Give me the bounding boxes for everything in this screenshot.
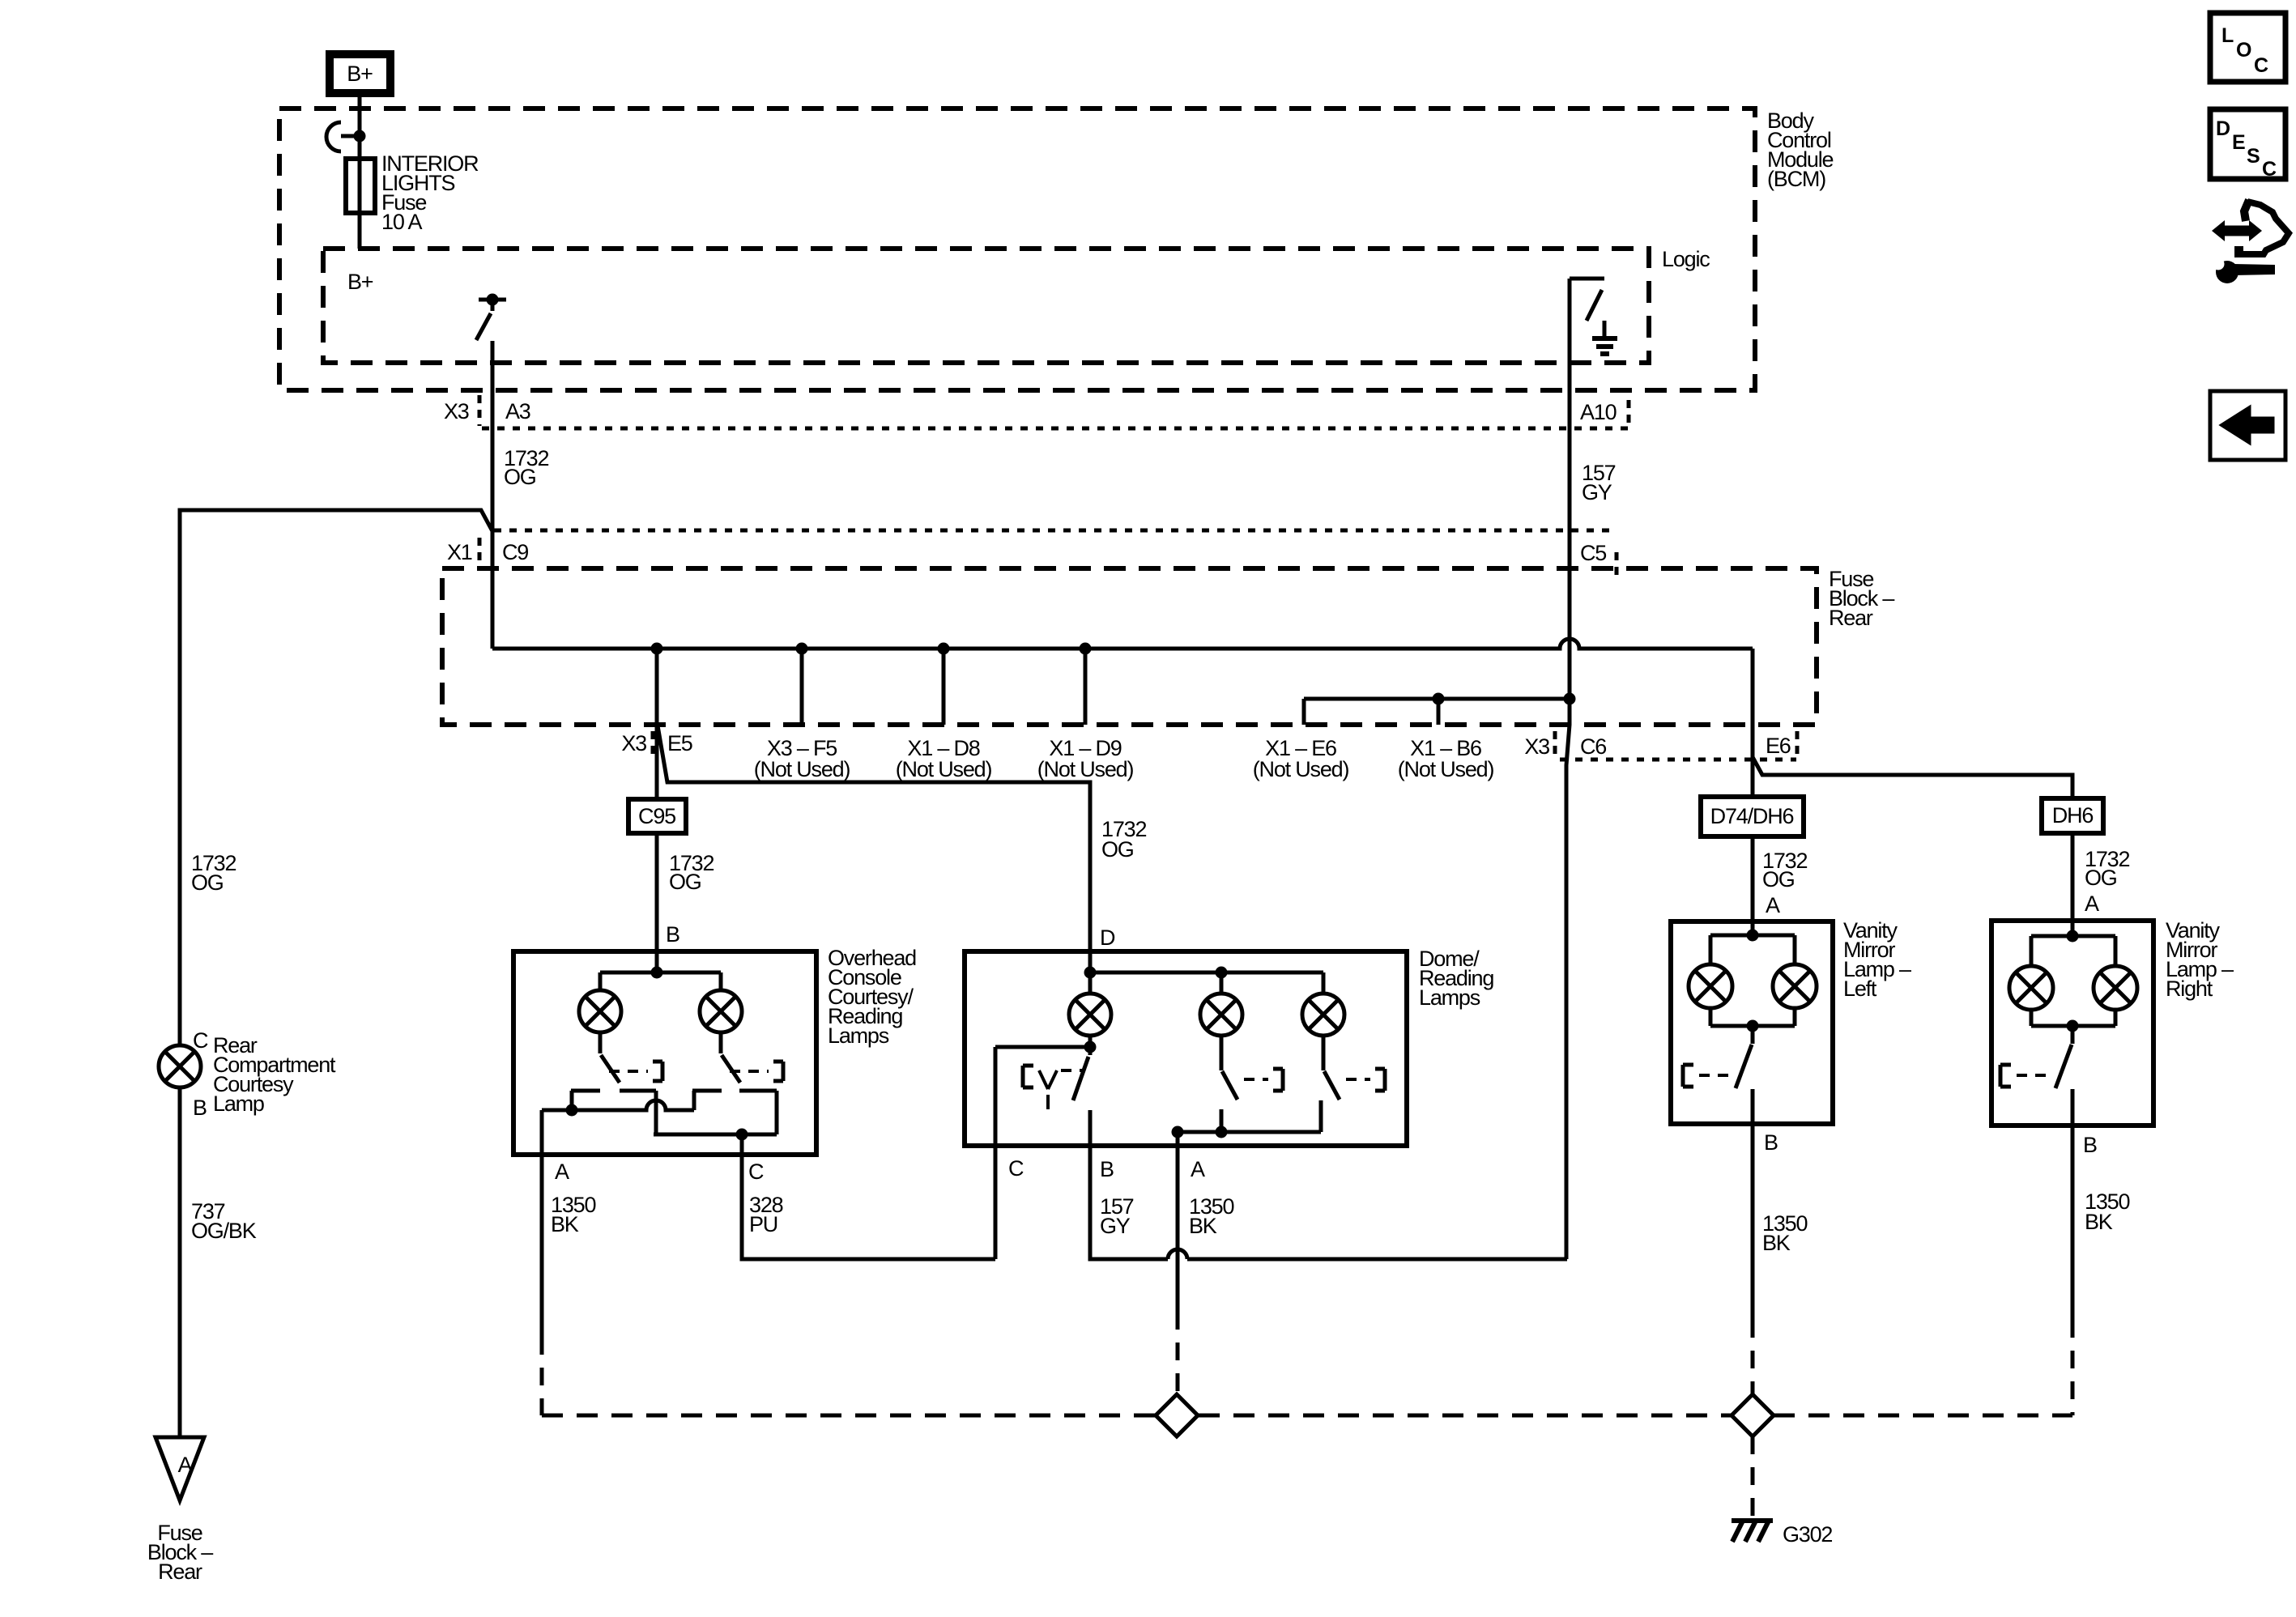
svg-text:C: C [748, 1160, 764, 1184]
rear compartment courtesy lamp label [213, 1033, 336, 1116]
drop wire F5 [800, 649, 804, 725]
drop wire E5 [655, 649, 659, 725]
connector row C6/E6 [1524, 731, 1797, 760]
svg-text:A: A [555, 1160, 569, 1184]
wire label 1350 BK (overhead A) [551, 1193, 595, 1236]
svg-text:(BCM): (BCM) [1767, 167, 1825, 191]
vanity left label [1843, 918, 1911, 1001]
connector row X1/C9/C5 dotted line [494, 529, 1617, 533]
overhead console feed rail [600, 951, 721, 990]
svg-text:BK: BK [1189, 1214, 1217, 1238]
svg-text:A: A [1191, 1157, 1205, 1181]
drop wire X1-B6 [1437, 699, 1441, 725]
label X3 - F5 (Not Used) [754, 736, 850, 781]
junction dot E5 [651, 643, 663, 655]
DESC icon box [2210, 109, 2285, 181]
svg-text:OG: OG [2085, 866, 2117, 890]
svg-text:C9: C9 [502, 540, 528, 564]
vanity left pin B wire [1751, 1089, 1755, 1320]
svg-text:C: C [1008, 1156, 1024, 1181]
splice diamond S301 [1156, 1394, 1198, 1436]
drop wire D9 [1084, 649, 1088, 725]
overhead lamp right [700, 990, 742, 1032]
svg-text:A3: A3 [505, 399, 530, 423]
drop wire X1-E6 [1302, 699, 1306, 725]
label X1 - D9 (Not Used) [1037, 736, 1134, 781]
vanity right lamp 1 [2009, 966, 2053, 1010]
junction dot D8 [938, 643, 950, 655]
wire label 1732 OG (below C95) [669, 851, 714, 894]
dome switch 3 [1321, 1036, 1385, 1132]
wire DH6 to vanity right [2071, 833, 2075, 921]
wire E5 to C95 [655, 725, 659, 799]
Fuse Block - Rear label [1829, 567, 1894, 630]
svg-text:OG: OG [1101, 837, 1134, 862]
wire E6 branch to DH6 [1753, 757, 2072, 798]
svg-text:D: D [1100, 926, 1115, 950]
dome output rail to pin A [1172, 1126, 1322, 1138]
svg-text:(Not Used): (Not Used) [754, 757, 850, 781]
vanity right label [2166, 918, 2234, 1001]
wire B+ feed to fuse [358, 93, 362, 159]
wire E6 from bus corner down to D74/DH6 [1751, 649, 1755, 797]
svg-text:B: B [666, 922, 679, 947]
wire label 1350 BK (vanity right) [2085, 1189, 2129, 1234]
junction dot F5 [796, 643, 808, 655]
wire E5 branch to dome lamps pin D [658, 726, 1090, 951]
dome lamp 3 [1302, 994, 1344, 1036]
fuse INTERIOR LIGHTS 10 A [346, 151, 479, 234]
label X1 - B6 (Not Used) [1398, 736, 1494, 781]
svg-text:OG: OG [1762, 867, 1795, 891]
svg-text:B+: B+ [347, 270, 373, 294]
vanity right pin B wire [2071, 1089, 2075, 1320]
ground splice bus dashed [542, 1414, 2072, 1418]
svg-text:E5: E5 [667, 731, 692, 755]
dome pin B wire with hop over pin A wire [1090, 1110, 1567, 1259]
connector separator right of C5 [1615, 552, 1619, 577]
svg-text:G302: G302 [1783, 1522, 1832, 1547]
vanity left switch [1683, 1026, 1753, 1088]
connector separator right of A10 [1627, 400, 1631, 428]
overhead pin A wire dashed to splice [540, 1337, 544, 1415]
svg-text:A: A [178, 1453, 193, 1477]
dome/reading lamps box [965, 951, 1407, 1146]
connector label X3|E5 [621, 731, 692, 755]
Body Control Module (BCM) label [1767, 109, 1834, 191]
wire rear lamp to fuse block rear [178, 1087, 182, 1437]
dome lamp1 output junction [995, 1036, 1097, 1055]
vanity right lamp 2 [2094, 966, 2137, 1010]
connector C95 box [628, 799, 686, 833]
vanity right lamp bridge [2031, 921, 2115, 1032]
wire label 1732 OG (dome feed) [1101, 817, 1146, 862]
junction dot X1-B6 [1433, 693, 1445, 705]
svg-text:GY: GY [1582, 480, 1612, 504]
svg-text:Rear: Rear [1829, 606, 1873, 630]
svg-text:D74/DH6: D74/DH6 [1710, 804, 1794, 828]
svg-text:E: E [2232, 131, 2245, 154]
sub-bus wire to E6/B6 pins [1304, 697, 1570, 701]
wire label 1732 OG (below A3) [504, 446, 548, 489]
LOC icon box [2210, 13, 2285, 82]
wire label 1732 OG (vanity right) [2085, 847, 2129, 890]
overhead pin A wire [540, 1110, 544, 1337]
back arrow icon box [2210, 391, 2285, 460]
svg-text:C6: C6 [1580, 734, 1606, 759]
label X1 - E6 (Not Used) [1253, 736, 1349, 781]
vanity left lamp 1 [1689, 964, 1732, 1008]
svg-text:X3: X3 [444, 399, 469, 423]
wire label 157 GY (dome B) [1100, 1194, 1134, 1238]
svg-text:S: S [2247, 145, 2260, 168]
svg-text:Rear: Rear [158, 1560, 202, 1584]
svg-text:BK: BK [1762, 1231, 1791, 1255]
wire C95 to overhead console pin B [655, 833, 659, 951]
svg-text:DH6: DH6 [2052, 803, 2094, 828]
drop wire D8 [942, 649, 946, 725]
wire 1732 OG from switch down to fuse block bus [491, 341, 495, 649]
svg-text:B: B [193, 1096, 207, 1120]
svg-text:(Not Used): (Not Used) [1398, 757, 1494, 781]
Fuse Block - Rear dashed box [442, 568, 1817, 725]
dome pin A wire [1176, 1132, 1180, 1312]
svg-text:A10: A10 [1580, 400, 1617, 424]
svg-text:E6: E6 [1766, 734, 1791, 758]
dome pin A wire dashed to splice [1176, 1312, 1180, 1395]
vanity mirror lamp right box [1991, 921, 2153, 1126]
svg-text:B: B [1764, 1130, 1778, 1155]
wire branch to rear compartment courtesy lamp [180, 510, 492, 1045]
dome lamp 1 [1069, 994, 1111, 1036]
svg-text:GY: GY [1100, 1214, 1131, 1238]
svg-text:X3: X3 [621, 731, 646, 755]
connector D74/DH6 box [1701, 797, 1804, 836]
BCM dashed box [279, 109, 1755, 390]
bus wire inside fuse block with hop over 157 GY [492, 639, 1753, 649]
off-page arrow to fuse block rear [155, 1437, 204, 1500]
svg-text:B: B [2083, 1133, 2097, 1157]
BCM internal switch (interior lamps control) [476, 294, 506, 341]
vanity left lamp bridge [1710, 921, 1795, 1032]
svg-text:(Not Used): (Not Used) [896, 757, 992, 781]
BCM internal ground symbol [1592, 321, 1617, 354]
connector separator X3|A3 [478, 395, 482, 426]
connector DH6 box [2042, 798, 2103, 833]
svg-text:X1: X1 [447, 540, 472, 564]
overhead lamp left [579, 990, 621, 1032]
svg-text:C: C [2254, 54, 2268, 77]
svg-text:C95: C95 [638, 804, 675, 828]
label X1 - D8 (Not Used) [896, 736, 992, 781]
junction dot sub-bus at 157 wire [1564, 693, 1576, 705]
svg-text:Logic: Logic [1662, 247, 1710, 271]
svg-text:C: C [2262, 158, 2277, 181]
service information icon [2212, 200, 2289, 283]
svg-text:C5: C5 [1580, 541, 1606, 565]
overhead console label [828, 946, 916, 1048]
fuse block rear destination label [147, 1521, 213, 1584]
wire label 1732 OG (left branch) [191, 851, 236, 895]
svg-text:BK: BK [2085, 1210, 2113, 1234]
svg-text:(Not Used): (Not Used) [1037, 757, 1134, 781]
vanity left B dashed to splice [1751, 1320, 1755, 1394]
svg-text:OG: OG [504, 465, 536, 489]
Logic dashed box [323, 249, 1649, 363]
dome/reading lamps label [1419, 947, 1493, 1010]
power feed B+ box [330, 54, 390, 93]
ground symbol G302 [1732, 1521, 1832, 1547]
svg-text:B: B [1100, 1157, 1114, 1181]
svg-text:O: O [2236, 39, 2251, 62]
svg-text:B+: B+ [347, 62, 373, 86]
svg-text:L: L [2221, 24, 2234, 47]
svg-text:Right: Right [2166, 977, 2213, 1001]
vanity mirror lamp left box [1671, 921, 1833, 1124]
dome pin C wire [994, 1047, 998, 1259]
BCM internal driver switch to ground [1570, 279, 1604, 321]
wire label 328 PU [749, 1193, 783, 1236]
svg-text:PU: PU [749, 1212, 777, 1236]
overhead switch linkage contacts [542, 1091, 777, 1141]
svg-text:OG: OG [191, 870, 224, 895]
wire 157 GY from BCM driver down to C6 [1566, 279, 1570, 1259]
vanity right B dashed to splice bus [2071, 1320, 2075, 1415]
dashed wire splice to ground G302 [1751, 1436, 1755, 1521]
svg-text:(Not Used): (Not Used) [1253, 757, 1349, 781]
svg-text:A: A [1766, 893, 1780, 917]
svg-text:A: A [2085, 891, 2099, 916]
wire fuse to logic box [358, 213, 362, 249]
overhead console courtesy/reading lamps box [513, 951, 816, 1155]
wire label 1350 BK (vanity left) [1762, 1211, 1807, 1255]
wire label 157 GY (below A10) [1582, 461, 1616, 504]
dome lamp 2 [1200, 994, 1242, 1036]
connector row X3/A3/A10 dotted line [482, 427, 1628, 431]
wire label 737 OG/BK [191, 1199, 257, 1243]
rear compartment courtesy lamp [159, 1045, 201, 1087]
overhead switch 1 [600, 1032, 662, 1083]
vanity left lamp 2 [1773, 964, 1817, 1008]
connector separator X1|C9 [478, 538, 482, 565]
svg-text:Lamp: Lamp [213, 1091, 264, 1116]
svg-text:Left: Left [1843, 977, 1877, 1001]
svg-text:Lamps: Lamps [828, 1023, 889, 1048]
svg-text:C: C [193, 1028, 208, 1053]
dome switch 2 [1221, 1036, 1283, 1132]
svg-text:X3: X3 [1524, 734, 1549, 759]
inline connector symbol on B+ feed [326, 122, 366, 151]
junction dot D9 [1080, 643, 1092, 655]
dome 3-position switch [1023, 1057, 1088, 1109]
wire D74/DH6 to vanity left [1751, 836, 1755, 921]
svg-text:10 A: 10 A [381, 210, 422, 234]
wire label 1732 OG (vanity left) [1762, 849, 1807, 891]
overhead pin C wire 328 PU [742, 1134, 995, 1259]
svg-text:BK: BK [551, 1212, 579, 1236]
overhead switch 2 [721, 1032, 783, 1083]
splice diamond S302 [1732, 1394, 1774, 1436]
svg-text:D: D [2216, 117, 2230, 140]
wire label 1350 BK (dome A) [1189, 1194, 1233, 1238]
svg-text:Lamps: Lamps [1419, 985, 1480, 1010]
svg-text:OG: OG [669, 870, 701, 894]
vanity right switch [2000, 1026, 2072, 1088]
dome feed rail [1084, 951, 1324, 994]
svg-text:OG/BK: OG/BK [191, 1219, 257, 1243]
